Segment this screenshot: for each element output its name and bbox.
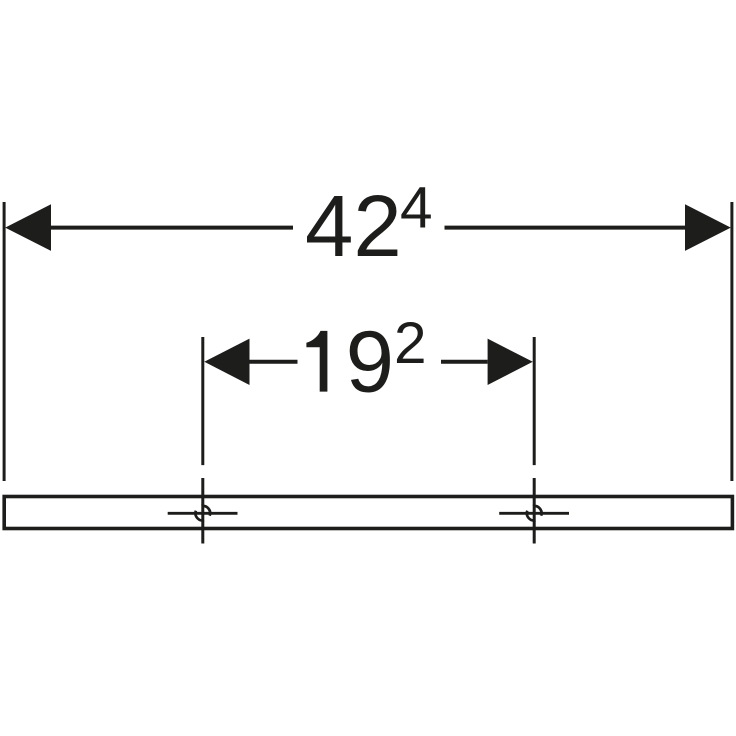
svg-text:4: 4 <box>400 176 433 241</box>
svg-text:42: 42 <box>305 178 402 275</box>
svg-text:2: 2 <box>394 311 427 376</box>
svg-text:9: 9 <box>346 314 394 411</box>
